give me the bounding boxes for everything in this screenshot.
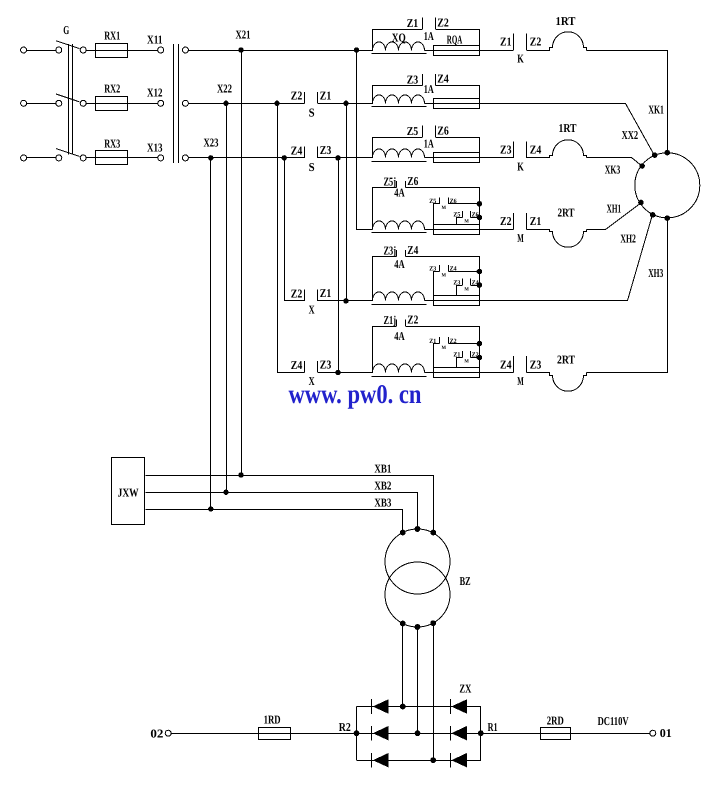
label XQ (392, 30, 406, 44)
switch G linkage (69, 44, 73, 155)
terminal 01 (650, 730, 656, 736)
terminal X13 (158, 155, 164, 161)
bypass contact Z5j-Z6 (branch 4) (373, 174, 480, 229)
wire coil-resistor (branch 1) (424, 50, 433, 52)
svg-text:XK3: XK3 (605, 162, 621, 176)
node row3-drop (282, 155, 287, 160)
node bridge top (400, 704, 406, 710)
wire pole3-fuse (86, 157, 96, 159)
label XH2 (620, 232, 636, 246)
svg-text:Z1: Z1 (407, 16, 419, 30)
label 4A (branch 4) (394, 186, 405, 200)
relay box JXW (112, 458, 145, 525)
svg-text:BZ: BZ (460, 574, 471, 588)
label X23 (204, 135, 219, 149)
wire branch3 to motor (XK3) (587, 158, 643, 167)
node BZ bottom 1 (400, 621, 406, 627)
svg-text:Z1: Z1 (320, 286, 332, 300)
resistor box (branch 3) (433, 153, 479, 163)
label X12 (147, 86, 163, 100)
fuse RX1 (96, 44, 128, 58)
bypass contact Z1-Z2 (branch 1) (373, 15, 480, 50)
label JXW (118, 486, 139, 500)
node BZ bottom 2 (415, 624, 421, 630)
wire row2 bus left (188, 103, 304, 105)
reactor coil (branch 5) (372, 292, 427, 305)
svg-text:Z4: Z4 (450, 266, 458, 273)
motor node XK3 (639, 163, 645, 169)
svg-text:M: M (442, 273, 447, 279)
wire coil-resistor (branch 5) (424, 300, 433, 302)
wire X23 vertical (210, 158, 212, 509)
wire X22 vertical (226, 103, 228, 492)
wire row1 bus (188, 50, 373, 52)
fuse RX2 (96, 97, 128, 111)
label RX2 (104, 82, 120, 96)
svg-text:RQA: RQA (447, 33, 463, 47)
svg-text:XH3: XH3 (648, 266, 663, 280)
svg-text:2RT: 2RT (558, 205, 575, 219)
svg-text:S: S (309, 160, 315, 174)
contact S Z4-Z3 (row3) (291, 143, 332, 174)
thermal relay 1RT (branch 3) (527, 140, 587, 158)
wire row2 bus right (318, 103, 373, 105)
node X22 (223, 101, 228, 106)
label R2 (339, 720, 351, 734)
label XK1 (648, 103, 664, 117)
label ZX (459, 681, 471, 695)
fuse 1RD (258, 728, 290, 740)
svg-text:1RT: 1RT (556, 14, 576, 28)
terminal L1 (supply phase 1) (21, 47, 57, 53)
wire pole1-fuse (86, 50, 96, 52)
node row1-drop (354, 47, 359, 52)
terminal block bars (174, 44, 179, 163)
svg-text:Z1: Z1 (453, 352, 460, 359)
svg-text:Z3: Z3 (429, 266, 437, 273)
diode D2b (451, 726, 468, 741)
aux contact Z3-Z4 upper (branch 5) (429, 265, 479, 296)
node R1 (478, 730, 484, 736)
aux contact Z3-Z4 lower (branch 5) (453, 279, 479, 296)
terminal X12 (158, 100, 164, 106)
wire row3-right to row6 (338, 158, 340, 373)
label 4A (branch 6) (394, 329, 405, 343)
label XB2 (374, 479, 391, 493)
label 01 (660, 726, 672, 740)
resistor box (branch 6) (433, 368, 479, 378)
aux contact Z1-Z2 lower (branch 6) (453, 351, 479, 368)
bridge row 2 wire (357, 733, 481, 735)
label 02 (150, 726, 163, 740)
node X23 (208, 155, 213, 160)
wire 2RD-01 (571, 733, 650, 735)
diode D3b (451, 753, 468, 768)
svg-text:Z4: Z4 (437, 72, 449, 86)
thermal relay 2RT (branch 6) (527, 373, 587, 392)
contact X Z2-Z1 (row5) (291, 286, 332, 317)
terminal X21 side circle (182, 47, 188, 53)
wire 02-1RD (171, 733, 258, 735)
svg-text:02: 02 (150, 726, 163, 740)
label 1RT (branch 3) (559, 121, 577, 135)
svg-text:X11: X11 (147, 32, 163, 46)
svg-text:2RD: 2RD (547, 714, 564, 728)
svg-text:DC110V: DC110V (598, 714, 629, 728)
node X21 (238, 47, 243, 52)
svg-text:M: M (442, 345, 447, 351)
svg-text:Z4: Z4 (500, 357, 512, 371)
motor node XH2 (650, 212, 656, 218)
bypass contact Z1j-Z2 (branch 6) (373, 312, 480, 372)
svg-text:Z6: Z6 (407, 174, 418, 188)
thermal relay 1RT (branch 1) (527, 32, 587, 51)
label 2RT (branch 4) (558, 205, 575, 219)
label XH1 (607, 201, 622, 215)
label 2RT (branch 6) (557, 353, 575, 367)
resistor box (branch 5) (433, 296, 479, 306)
label 1RT (branch 1) (556, 14, 576, 28)
label DC110V (598, 714, 629, 728)
node row6-join (335, 370, 340, 375)
wire fuse-X13 (128, 157, 159, 159)
aux node lower (branch 5) (477, 282, 483, 288)
svg-text:Z3: Z3 (500, 143, 512, 157)
bridge right rail (480, 707, 482, 761)
svg-text:XK1: XK1 (648, 103, 664, 117)
bypass contact Z3-Z4 (branch 2) (373, 72, 480, 104)
svg-text:Z2: Z2 (450, 338, 457, 345)
svg-text:RX1: RX1 (104, 28, 120, 42)
svg-text:M: M (442, 205, 447, 211)
wire branch1 to motor (XK1) (587, 51, 668, 153)
diode D3a (372, 753, 389, 768)
fuse 2RD (541, 728, 571, 740)
contact K Z1-Z2 (branch 1) (480, 34, 542, 66)
svg-text:Z2: Z2 (437, 15, 449, 29)
svg-text:2RT: 2RT (557, 353, 575, 367)
svg-text:JXW: JXW (118, 486, 139, 500)
aux contact Z1-Z2 upper (branch 6) (429, 337, 479, 367)
svg-text:RX3: RX3 (104, 136, 120, 150)
svg-text:X12: X12 (147, 86, 163, 100)
node XB3-X23 (208, 506, 213, 511)
svg-text:1RD: 1RD (264, 712, 281, 726)
svg-text:XB2: XB2 (374, 479, 391, 493)
wire row2-right to row5 (346, 103, 348, 301)
label X11 (147, 32, 163, 46)
svg-text:Z5: Z5 (453, 212, 461, 219)
diode D2a (372, 726, 389, 741)
svg-text:Z3: Z3 (453, 279, 461, 286)
wire row6 lead right (318, 372, 373, 374)
svg-text:Z6: Z6 (437, 124, 449, 138)
aux node lower (branch 4) (477, 215, 483, 221)
label R1 (488, 720, 498, 734)
wire row3 bus right (318, 157, 373, 159)
svg-text:Z2: Z2 (291, 89, 303, 103)
svg-text:4A: 4A (394, 186, 405, 200)
transformer BZ primary (385, 529, 450, 594)
reactor coil (branch 3) (372, 149, 427, 162)
label X13 (147, 140, 163, 154)
svg-text:M: M (464, 286, 469, 292)
svg-text:X13: X13 (147, 140, 163, 154)
switch G pole 3 (56, 149, 86, 161)
wire coil-resistor (branch 3) (424, 157, 433, 159)
terminal X23 side circle (182, 155, 188, 161)
svg-text:ZX: ZX (459, 681, 471, 695)
wire branch6 to motor (XH3) (587, 219, 668, 373)
svg-text:01: 01 (660, 726, 672, 740)
svg-text:RX2: RX2 (104, 82, 120, 96)
node BZ bottom 3 (430, 620, 436, 626)
terminal X11 (158, 47, 164, 53)
label 1A (branch 1) (424, 29, 434, 43)
fuse RX3 (96, 151, 128, 165)
diode D1b (451, 699, 468, 714)
node row5-join (343, 298, 348, 303)
motor node XH1 (638, 200, 644, 206)
wire XB1 (146, 476, 434, 533)
svg-text:K: K (517, 160, 524, 174)
wire BZ-rectifier 1 (402, 624, 404, 707)
label XK3 (605, 162, 621, 176)
svg-text:R2: R2 (339, 720, 351, 734)
wire coil-resistor (branch 6) (424, 372, 433, 374)
resistor box (branch 1) (433, 46, 479, 56)
svg-text:K: K (517, 52, 524, 66)
svg-text:M: M (464, 219, 469, 225)
reactor coil (branch 2) (372, 95, 427, 107)
svg-text:4A: 4A (394, 329, 405, 343)
node bridge bottom (430, 757, 436, 763)
svg-text:M: M (464, 359, 469, 365)
wire 1RD-bridge (290, 733, 356, 735)
svg-text:X23: X23 (204, 135, 219, 149)
svg-text:Z1j: Z1j (384, 313, 397, 327)
wire BZ-rectifier 3 (433, 623, 435, 760)
contact K Z3-Z4 (branch 3) (480, 141, 542, 173)
motor circle (635, 153, 700, 218)
bridge row 3 wire (357, 760, 481, 762)
reactor coil (branch 1) (372, 42, 427, 54)
transformer BZ secondary (385, 562, 450, 627)
node row2-drop (274, 101, 279, 106)
wire row5 lead right (318, 300, 373, 302)
label X21 (236, 27, 251, 41)
svg-text:Z1: Z1 (429, 338, 436, 345)
node XB1-X21 (238, 472, 243, 477)
aux node lower (branch 6) (477, 355, 483, 361)
motor node XH3 (665, 215, 671, 221)
wire branch2 to motor (XX2) (480, 104, 655, 156)
resistor box (branch 2) (433, 99, 479, 109)
reactor coil (branch 6) (372, 364, 427, 377)
node BZ top 2 (415, 526, 421, 532)
terminal 02 (165, 730, 171, 736)
aux contact Z5-Z6 lower (branch 4) (453, 211, 479, 225)
svg-text:4A: 4A (394, 257, 405, 271)
svg-text:Z3: Z3 (407, 72, 419, 86)
label 4A (branch 5) (394, 257, 405, 271)
svg-text:M: M (517, 374, 524, 388)
bypass contact Z3j-Z4 (branch 5) (373, 243, 480, 301)
motor node XK1 (665, 150, 671, 156)
contact M Z2-Z1 (branch 4) (480, 213, 542, 245)
node R2 (354, 730, 360, 736)
label 1RD (264, 712, 281, 726)
svg-text:Z6: Z6 (450, 198, 458, 205)
node bridge mid (415, 730, 421, 736)
svg-text:1RT: 1RT (559, 121, 577, 135)
svg-text:Z1: Z1 (500, 35, 512, 49)
wire row3 bus left (188, 157, 304, 159)
wire pole2-fuse (86, 103, 96, 105)
wire branch4 to motor (XH1) (587, 203, 642, 230)
svg-text:Z2: Z2 (500, 214, 512, 228)
watermark www.pw0.cn (289, 379, 422, 409)
wire bridge-2RD (481, 733, 541, 735)
svg-text:Z3: Z3 (530, 357, 542, 371)
node XB2-X22 (223, 490, 228, 495)
diode D1a (372, 699, 389, 714)
motor node XX2 (652, 152, 658, 158)
svg-text:Z5: Z5 (407, 124, 419, 138)
svg-text:XH1: XH1 (607, 201, 622, 215)
svg-text:X: X (309, 302, 315, 316)
svg-text:R1: R1 (488, 720, 498, 734)
bridge left rail (356, 707, 358, 761)
wire X21 vertical (241, 50, 243, 475)
wire coil-resistor (branch 4) (424, 229, 433, 231)
svg-text:Z3j: Z3j (384, 244, 397, 258)
aux contact Z5-Z6 upper (branch 4) (429, 197, 479, 224)
label XB1 (374, 461, 391, 475)
node row2-right-drop (343, 101, 348, 106)
terminal L2 (supply phase 2) (21, 100, 57, 106)
terminal X22 side circle (182, 100, 188, 106)
bridge row 1 wire (357, 706, 481, 708)
wire XB3 (146, 510, 403, 533)
node BZ top 3 (430, 530, 436, 536)
aux node upper (branch 6) (477, 341, 483, 347)
svg-text:XQ: XQ (392, 30, 406, 44)
svg-text:S: S (309, 105, 315, 119)
label 1A (branch 3) (424, 137, 434, 151)
aux node upper (branch 5) (477, 269, 483, 275)
label 2RD (547, 714, 564, 728)
contact S Z2-Z1 (row2) (291, 88, 332, 119)
wire row1 to row4 (357, 51, 373, 230)
wire BZ-rectifier 2 (417, 627, 419, 733)
label RQA (447, 33, 463, 47)
node row3-right-drop (335, 155, 340, 160)
svg-text:Z2: Z2 (530, 35, 542, 49)
terminal L3 (supply phase 3) (21, 155, 57, 161)
wire branch5 to motor (XH2) (480, 215, 653, 301)
svg-text:Z4: Z4 (530, 143, 542, 157)
svg-text:Z1: Z1 (530, 214, 542, 228)
wire fuse-X11 (128, 50, 159, 52)
svg-text:Z4: Z4 (407, 243, 418, 257)
svg-text:XH2: XH2 (620, 232, 636, 246)
aux node upper (branch 4) (477, 201, 483, 207)
label XH3 (648, 266, 663, 280)
svg-text:1A: 1A (424, 137, 434, 151)
switch G pole 2 (56, 94, 86, 106)
reactor coil (branch 4) (372, 221, 427, 233)
wire XB2 (146, 493, 418, 530)
svg-text:G: G (63, 23, 69, 37)
svg-text:M: M (517, 231, 524, 245)
label XX2 (622, 128, 639, 142)
label G (63, 23, 69, 37)
label RX1 (104, 28, 120, 42)
label 1A (branch 2) (424, 82, 434, 96)
svg-text:Z4: Z4 (291, 143, 303, 157)
svg-text:Z5: Z5 (429, 198, 437, 205)
svg-text:XB3: XB3 (374, 495, 391, 509)
svg-text:1A: 1A (424, 29, 434, 43)
svg-text:XB1: XB1 (374, 461, 391, 475)
svg-text:Z2: Z2 (291, 286, 303, 300)
contact M Z4-Z3 (branch 6) (480, 356, 542, 388)
contact X Z4-Z3 (row6) (291, 358, 332, 389)
thermal relay 2RT (branch 4) (527, 230, 587, 248)
switch G pole 1 (56, 41, 86, 53)
svg-text:Z1: Z1 (320, 88, 332, 102)
svg-text:www. pw0. cn: www. pw0. cn (289, 379, 422, 409)
svg-text:Z3: Z3 (320, 143, 332, 157)
wire fuse-X12 (128, 103, 159, 105)
wire row2 to X-contact row6 (278, 104, 305, 373)
svg-text:X22: X22 (217, 81, 232, 95)
resistor box (branch 4) (433, 225, 479, 235)
bypass contact Z5-Z6 (branch 3) (373, 124, 480, 158)
svg-text:Z2: Z2 (407, 312, 418, 326)
svg-text:Z4: Z4 (291, 358, 303, 372)
svg-text:X21: X21 (236, 27, 251, 41)
svg-text:XX2: XX2 (622, 128, 639, 142)
label XB3 (374, 495, 391, 509)
label RX3 (104, 136, 120, 150)
wire coil-resistor (branch 2) (424, 103, 433, 105)
svg-text:Z3: Z3 (320, 358, 332, 372)
wire row3 to X-contact row5 (285, 158, 305, 301)
svg-text:1A: 1A (424, 82, 434, 96)
label X22 (217, 81, 232, 95)
label BZ (460, 574, 471, 588)
node BZ top 1 (400, 530, 406, 536)
